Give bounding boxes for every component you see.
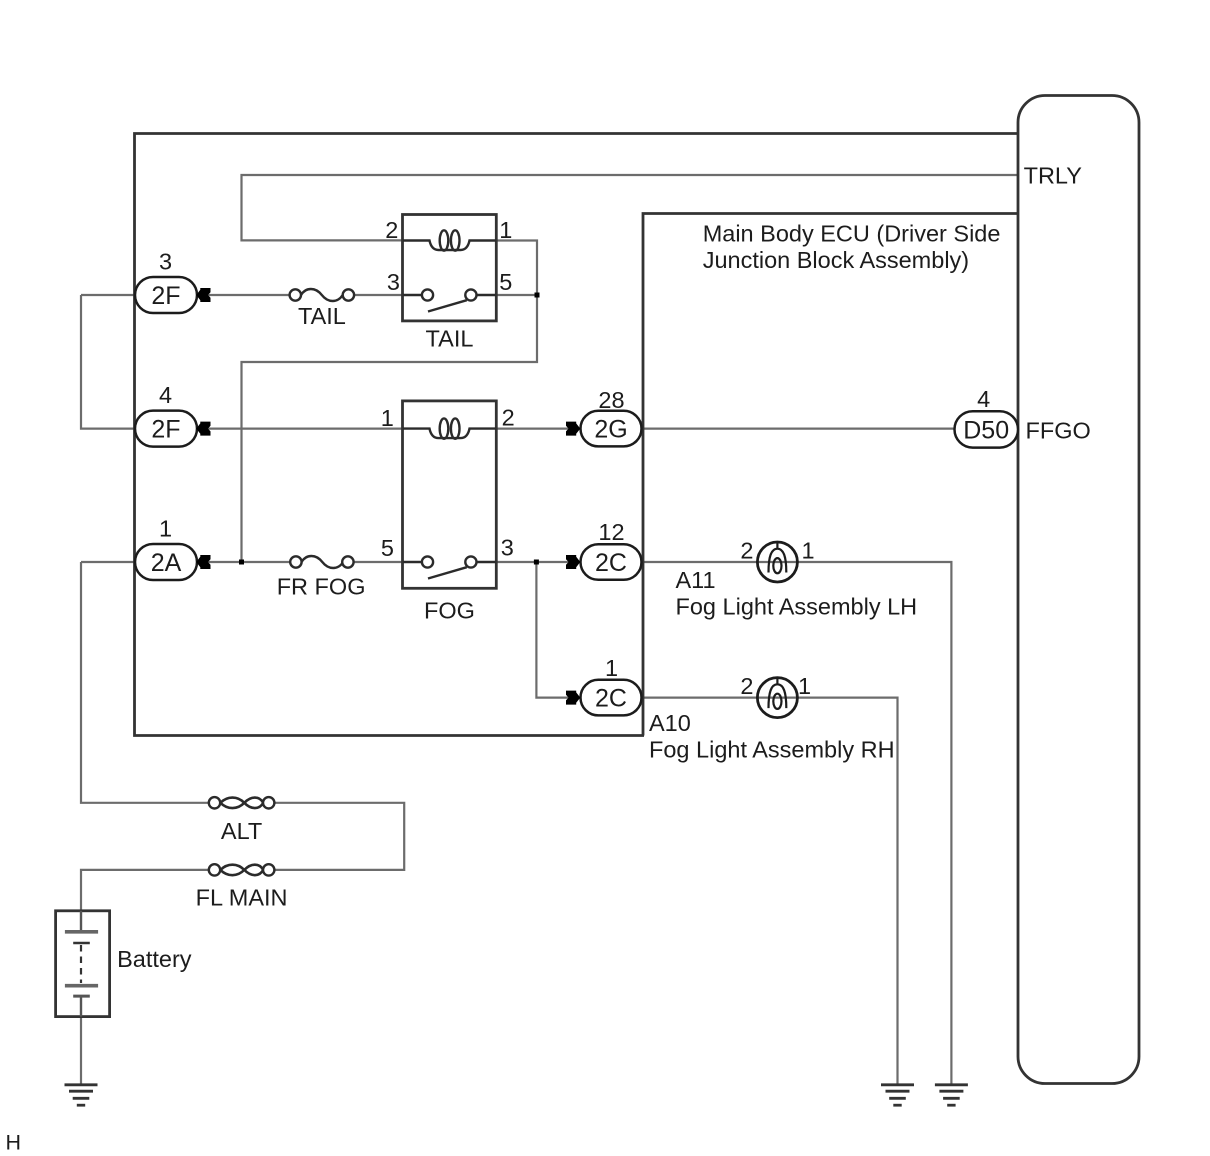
svg-text:2F: 2F: [151, 282, 180, 310]
svg-text:2A: 2A: [151, 549, 182, 577]
svg-text:Battery: Battery: [117, 946, 192, 972]
svg-text:4: 4: [977, 386, 990, 412]
svg-text:1: 1: [159, 516, 172, 542]
svg-text:Junction Block Assembly): Junction Block Assembly): [703, 247, 969, 273]
svg-text:1: 1: [605, 655, 618, 681]
svg-text:D50: D50: [963, 417, 1009, 445]
svg-text:TAIL: TAIL: [426, 325, 474, 351]
svg-text:Main Body ECU (Driver Side: Main Body ECU (Driver Side: [703, 220, 1001, 246]
svg-text:2G: 2G: [594, 416, 627, 444]
svg-text:2: 2: [385, 217, 398, 243]
svg-text:3: 3: [501, 535, 514, 561]
svg-text:Fog Light Assembly RH: Fog Light Assembly RH: [649, 737, 895, 763]
svg-text:1: 1: [798, 673, 811, 699]
svg-text:FOG: FOG: [424, 598, 475, 624]
svg-text:5: 5: [381, 535, 394, 561]
svg-text:A11: A11: [676, 567, 716, 593]
svg-text:4: 4: [159, 382, 172, 408]
svg-text:2C: 2C: [595, 685, 627, 713]
svg-text:1: 1: [499, 217, 512, 243]
svg-text:TAIL: TAIL: [298, 303, 346, 329]
svg-text:1: 1: [802, 537, 815, 563]
svg-text:FR FOG: FR FOG: [277, 574, 366, 600]
svg-text:2: 2: [502, 405, 515, 431]
svg-text:FFGO: FFGO: [1026, 418, 1091, 444]
svg-text:A10: A10: [649, 710, 691, 736]
svg-text:1: 1: [381, 405, 394, 431]
svg-text:FL MAIN: FL MAIN: [196, 885, 288, 911]
svg-text:3: 3: [387, 269, 400, 295]
svg-text:28: 28: [598, 387, 624, 413]
svg-text:2: 2: [740, 537, 753, 563]
svg-text:12: 12: [598, 519, 624, 545]
svg-text:Fog Light Assembly LH: Fog Light Assembly LH: [676, 594, 918, 620]
svg-text:5: 5: [499, 269, 512, 295]
svg-text:2F: 2F: [151, 416, 180, 444]
svg-text:2: 2: [740, 673, 753, 699]
svg-text:ALT: ALT: [221, 818, 262, 844]
svg-text:2C: 2C: [595, 549, 627, 577]
svg-text:3: 3: [159, 249, 172, 275]
svg-text:TRLY: TRLY: [1024, 163, 1083, 189]
svg-text:H: H: [6, 1131, 22, 1155]
